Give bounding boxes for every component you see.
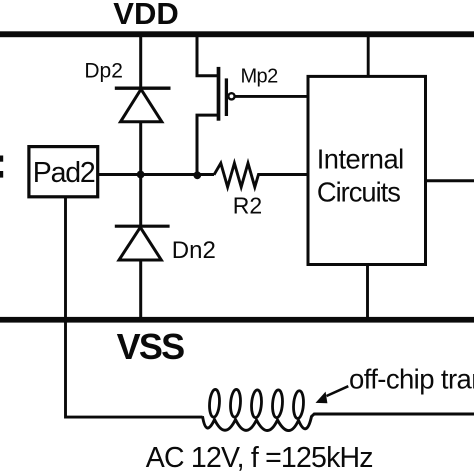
- VDD rail: [0, 31, 474, 37]
- wire: Mp2 gate to Internal Circuits: [235, 95, 308, 98]
- transformer winding scalloped base: [203, 414, 315, 431]
- svg-text:off-chip transformer: off-chip transformer: [349, 364, 474, 395]
- diode Dp2 triangle: [121, 89, 162, 122]
- svg-text:VSS: VSS: [117, 326, 184, 367]
- diode Dn2 triangle: [119, 227, 161, 260]
- wire: transformer right lead: [314, 413, 474, 416]
- resistor R2 zigzag: [214, 163, 308, 187]
- svg-text:VDD: VDD: [113, 0, 178, 31]
- svg-text:Pad2: Pad2: [33, 157, 95, 189]
- transformer loop 4: [272, 390, 284, 418]
- junction dot: Mp2 drain node: [193, 171, 201, 179]
- wire: VDD rail to Dp2 cathode: [139, 36, 142, 88]
- svg-text:Internal: Internal: [317, 143, 404, 174]
- transistor Mp2 drain wire to node: [197, 115, 219, 175]
- wire: Dp2 anode down to pad node: [139, 122, 142, 175]
- transistor Mp2 gate bubble: [228, 93, 234, 99]
- transformer loop 3: [251, 390, 263, 418]
- wire: Pad2 down and right to transformer: [66, 197, 203, 417]
- arrow head: [316, 392, 328, 404]
- transformer loop 2: [230, 389, 242, 417]
- wire: Internal Circuits right side: [426, 179, 474, 182]
- wire: Pad2 to R2 (pad node): [97, 173, 215, 176]
- diode Dp2 cathode bar: [115, 86, 171, 89]
- Internal Circuits box: [308, 76, 426, 264]
- transformer loop 5: [293, 390, 305, 418]
- wire: VDD rail to Internal Circuits top: [367, 36, 370, 76]
- VSS rail: [0, 317, 474, 323]
- svg-text:AC 12V, f =125kHz: AC 12V, f =125kHz: [146, 442, 373, 474]
- transistor Mp2 source wire from VDD: [197, 36, 219, 76]
- transformer loop 1: [209, 389, 221, 417]
- transistor Mp2 gate bar: [225, 78, 228, 116]
- svg-text:R2: R2: [233, 192, 262, 218]
- svg-text:Dp2: Dp2: [84, 60, 123, 83]
- wire: Dn2 anode down to VSS rail: [139, 260, 142, 318]
- svg-text:Mp2: Mp2: [241, 66, 279, 88]
- svg-text:Circuits: Circuits: [317, 176, 400, 207]
- junction dot: pad/diode node: [137, 171, 145, 179]
- transistor Mp2 channel bar: [217, 67, 221, 121]
- wire: Internal Circuits bottom to VSS rail: [366, 264, 369, 319]
- svg-text:Dn2: Dn2: [172, 237, 216, 264]
- diode Dn2 cathode bar: [115, 225, 170, 228]
- wire: pad node down to Dn2 cathode: [139, 175, 142, 227]
- Pad2 box: [29, 147, 98, 197]
- arrow shaft to transformer: [327, 386, 349, 396]
- clipped colon mark at left edge: [0, 156, 3, 162]
